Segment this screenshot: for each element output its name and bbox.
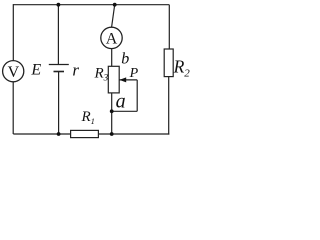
svg-text:P: P bbox=[129, 66, 139, 81]
svg-text:R3: R3 bbox=[94, 66, 109, 83]
battery E long plate bbox=[49, 64, 69, 66]
svg-text:E: E bbox=[30, 62, 41, 79]
wire top bbox=[13, 4, 169, 6]
wire right lower bbox=[168, 77, 170, 135]
ammeter A bbox=[101, 27, 122, 48]
node slider join bbox=[110, 109, 114, 113]
wire slider P vertical bbox=[136, 80, 138, 111]
svg-text:V: V bbox=[8, 64, 20, 81]
wire slider P horizontal bbox=[120, 79, 138, 81]
wire left upper bbox=[12, 4, 14, 60]
svg-text:R1: R1 bbox=[81, 109, 95, 126]
wire slider P to node bbox=[112, 110, 138, 112]
potentiometer R3 bbox=[108, 66, 119, 93]
node bottom battery bbox=[57, 132, 61, 136]
node top battery bbox=[57, 3, 61, 7]
wire R3 to bottom bbox=[111, 93, 113, 134]
voltmeter V bbox=[3, 61, 24, 82]
battery E short plate bbox=[54, 71, 65, 73]
resistor R2 bbox=[164, 49, 173, 77]
resistor R1 bbox=[71, 130, 99, 137]
wire right upper bbox=[168, 5, 170, 49]
node bottom R3 bbox=[110, 132, 114, 136]
wire left lower bbox=[12, 82, 14, 134]
wire battery branch upper bbox=[57, 5, 59, 65]
wire ammeter to R3 bbox=[111, 49, 113, 67]
node top ammeter bbox=[113, 3, 117, 7]
wire battery branch lower bbox=[58, 72, 60, 134]
slider arrowhead bbox=[119, 77, 126, 82]
svg-text:A: A bbox=[106, 31, 118, 48]
svg-text:r: r bbox=[72, 61, 79, 80]
svg-text:b: b bbox=[121, 51, 129, 68]
wire ammeter branch upper bbox=[112, 5, 115, 27]
wire bottom left bbox=[13, 133, 70, 135]
svg-text:a: a bbox=[116, 91, 126, 113]
wire bottom right bbox=[98, 133, 169, 135]
svg-text:R2: R2 bbox=[173, 56, 190, 79]
